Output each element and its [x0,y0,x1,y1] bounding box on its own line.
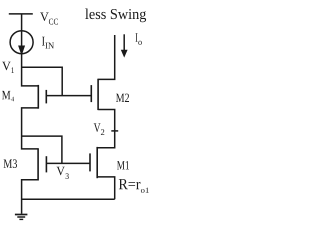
label M1 [117,161,129,169]
label VCC CC [49,19,58,25]
label M2 [116,94,129,102]
label IIN I [42,37,45,46]
label Io o [138,41,142,45]
label VCC V [40,13,49,22]
label V3 V [57,167,65,176]
Io arrowhead [121,50,128,58]
wire M1 source to ground rail [98,177,115,199]
label Ro1 [141,188,149,193]
ground symbol [15,214,28,216]
Io arrow shaft [123,34,125,50]
VCC supply bar [9,13,33,15]
wire M1 drain to node V2 and M2 source [98,110,115,148]
wire M2 drain to output branch [98,35,114,79]
label V1 V [2,62,11,70]
label M4 4 [11,97,14,102]
label R=r [119,179,141,189]
transistor M3 gate bar [45,156,47,172]
transistor M1 gate bar [89,153,91,171]
label V1 1 [11,67,14,73]
transistor M4 channel bar [37,85,39,109]
ground rail wire [22,198,115,200]
wire M3 source to ground [22,180,38,214]
wire M3 gate to M1 gate [47,162,90,164]
label V2 2 [101,129,104,135]
label V2 V [94,123,101,132]
current source IIN circle [10,31,33,54]
transistor M2 gate bar [90,85,92,102]
transistor M2 channel bar [97,79,99,110]
wire VCC to current source [21,14,23,31]
current source arrow shaft [21,30,23,47]
wire current source to node V1 and M4 drain [22,54,38,86]
wire M4 source to M3 drain [22,108,38,149]
label V3 3 [66,173,69,179]
transistor M1 channel bar [96,147,98,178]
node V2 tick [111,130,118,132]
label M4 M [2,91,10,99]
transistor M3 channel bar [37,148,39,180]
current source arrowhead [18,46,25,56]
transistor M4 gate bar [45,90,47,104]
wire node V1 to gate column [22,67,63,95]
label Io I [136,33,138,42]
label IIN IN [45,43,54,49]
wire M4 gate to M2 gate [47,95,92,97]
label less Swing [85,9,146,23]
label M3 [4,159,17,168]
wire node V3 link [22,136,62,163]
